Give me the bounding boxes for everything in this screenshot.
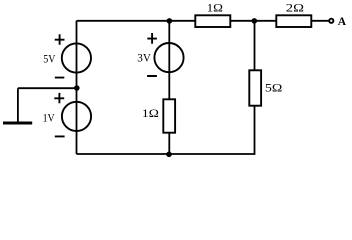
svg-text:3V: 3V — [137, 53, 151, 65]
svg-text:5V: 5V — [43, 54, 56, 66]
svg-text:1Ω: 1Ω — [207, 0, 223, 14]
svg-text:5Ω: 5Ω — [265, 80, 282, 94]
svg-text:1V: 1V — [43, 113, 56, 125]
svg-text:1Ω: 1Ω — [142, 106, 159, 120]
svg-text:A: A — [338, 16, 347, 28]
svg-text:2Ω: 2Ω — [286, 0, 304, 14]
